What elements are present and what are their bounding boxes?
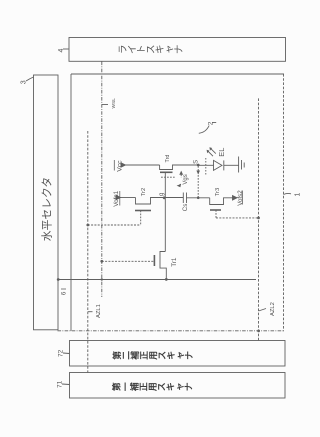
svg-text:ナ: ナ bbox=[183, 382, 193, 391]
svg-text:S: S bbox=[194, 160, 200, 164]
svg-text:ナ: ナ bbox=[184, 351, 194, 360]
svg-text:水平セレクタ: 水平セレクタ bbox=[41, 177, 54, 241]
svg-text:AZL1: AZL1 bbox=[96, 304, 102, 318]
svg-text:Vgs: Vgs bbox=[183, 174, 189, 184]
svg-text:1: 1 bbox=[295, 193, 302, 197]
svg-text:Tr2: Tr2 bbox=[141, 188, 147, 196]
svg-text:6: 6 bbox=[60, 291, 67, 295]
svg-text:EL: EL bbox=[217, 148, 226, 157]
svg-text:2: 2 bbox=[207, 121, 214, 125]
svg-text:Vcc: Vcc bbox=[117, 160, 124, 172]
svg-text:ナ: ナ bbox=[174, 45, 185, 55]
svg-text:Tr1: Tr1 bbox=[171, 257, 178, 267]
svg-text:72: 72 bbox=[58, 349, 65, 357]
svg-text:3: 3 bbox=[21, 80, 28, 84]
svg-text:Cs: Cs bbox=[182, 204, 189, 212]
svg-text:g: g bbox=[159, 193, 165, 196]
svg-text:Trd: Trd bbox=[165, 155, 171, 163]
svg-text:AZL2: AZL2 bbox=[270, 302, 276, 316]
svg-text:Vofs1: Vofs1 bbox=[113, 190, 120, 206]
svg-text:4: 4 bbox=[58, 49, 65, 53]
svg-text:Tr3: Tr3 bbox=[215, 188, 221, 196]
svg-text:WSL: WSL bbox=[111, 98, 117, 109]
svg-text:71: 71 bbox=[57, 380, 64, 388]
svg-text:Vofs2: Vofs2 bbox=[237, 190, 244, 206]
